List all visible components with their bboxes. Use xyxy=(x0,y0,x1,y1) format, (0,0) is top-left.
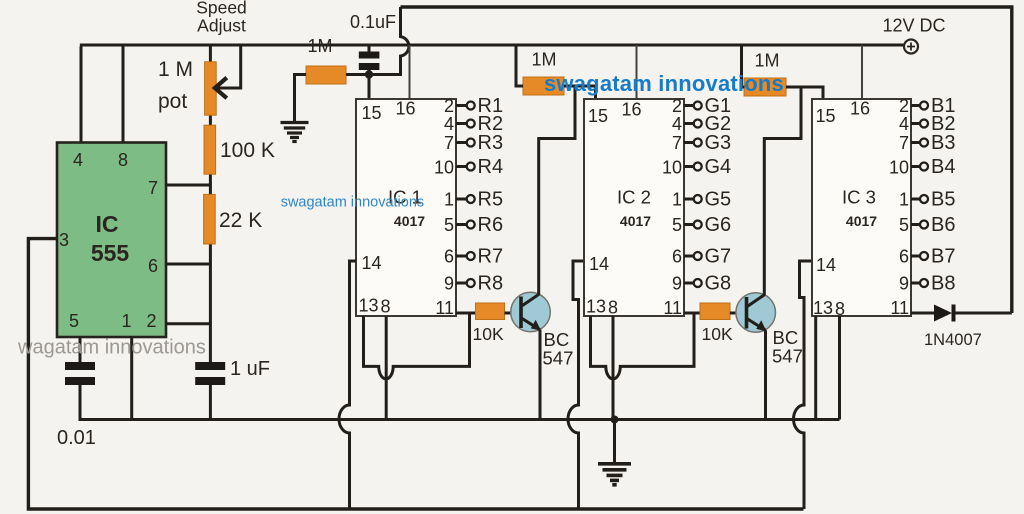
svg-text:swagatam innovations: swagatam innovations xyxy=(281,195,424,211)
IC2 output G6 xyxy=(684,214,731,236)
svg-text:6: 6 xyxy=(148,256,158,276)
svg-text:G5: G5 xyxy=(705,189,732,211)
IC1 output R8 xyxy=(456,273,503,295)
555 pin number labels xyxy=(59,150,158,331)
svg-text:4: 4 xyxy=(899,114,909,134)
diode D1 1N4007 xyxy=(934,305,956,322)
svg-text:11: 11 xyxy=(663,298,682,318)
555 name label xyxy=(91,211,130,266)
IC1 pin16 lead xyxy=(409,45,411,99)
svg-text:G3: G3 xyxy=(705,132,732,154)
svg-text:B8: B8 xyxy=(931,273,955,295)
wire IC1 pin 11 to 10K xyxy=(456,312,476,315)
node junction 0.1uF xyxy=(365,70,373,78)
IC2 output G2 xyxy=(684,113,731,135)
svg-text:5: 5 xyxy=(899,215,909,235)
svg-text:R6: R6 xyxy=(478,214,504,236)
IC1 name labels xyxy=(388,187,425,230)
resistor 1M (second) body xyxy=(523,77,564,95)
resistor 1M (first) body xyxy=(306,66,346,84)
svg-text:IC 3: IC 3 xyxy=(842,187,876,208)
wire 1M-2 right lead to IC2 pin15 xyxy=(564,86,596,99)
svg-text:1M: 1M xyxy=(754,51,779,71)
svg-text:15: 15 xyxy=(816,106,836,126)
svg-text:6: 6 xyxy=(899,247,909,267)
svg-text:16: 16 xyxy=(395,99,415,119)
svg-text:1: 1 xyxy=(121,311,131,331)
svg-text:6: 6 xyxy=(672,247,682,267)
node junction ground bus xyxy=(611,416,619,424)
svg-text:555: 555 xyxy=(91,240,130,266)
wire +12V supply rail xyxy=(80,44,904,47)
wire Q2 base lead xyxy=(730,312,747,315)
potentiometer VR1 1M body xyxy=(205,62,217,115)
svg-text:pot: pot xyxy=(158,90,187,113)
wire diode to right edge xyxy=(956,312,1012,315)
svg-text:wagatam innovations: wagatam innovations xyxy=(17,337,206,359)
svg-text:B4: B4 xyxy=(931,156,955,178)
svg-text:22 K: 22 K xyxy=(219,209,262,232)
label 1 M pot xyxy=(158,58,193,113)
svg-text:4017: 4017 xyxy=(394,213,425,229)
svg-text:14: 14 xyxy=(362,253,382,273)
wire 1M to ground xyxy=(295,75,307,122)
svg-text:1M: 1M xyxy=(307,36,332,56)
svg-text:14: 14 xyxy=(589,254,609,274)
IC3 output B4 xyxy=(911,156,955,178)
svg-text:1: 1 xyxy=(444,190,454,210)
capacitor 0.1uF xyxy=(359,44,380,100)
svg-text:7: 7 xyxy=(444,133,454,153)
IC3 output B6 xyxy=(911,214,955,236)
svg-text:swagatam innovations: swagatam innovations xyxy=(544,71,784,96)
svg-text:9: 9 xyxy=(672,274,682,294)
svg-text:8: 8 xyxy=(118,150,128,170)
svg-text:9: 9 xyxy=(899,274,909,294)
svg-text:G6: G6 xyxy=(705,214,732,236)
ground symbol (near 1M) xyxy=(281,123,309,142)
wire IC1 pin14 clock drop (hop over ground bus) xyxy=(339,261,356,509)
IC3 pin number labels xyxy=(813,96,909,319)
transistor Q2 BC547 xyxy=(736,293,776,333)
IC3 output B2 xyxy=(911,113,955,135)
IC1 output R6 xyxy=(456,214,503,236)
IC3 pin16 lead xyxy=(861,45,863,99)
svg-text:B3: B3 xyxy=(931,132,955,154)
svg-text:13: 13 xyxy=(586,297,606,317)
svg-text:G4: G4 xyxy=(705,156,732,178)
IC3 name labels xyxy=(842,187,877,230)
IC3 output B7 xyxy=(911,246,955,268)
wire 555 pin 3 output and bottom clock bus xyxy=(28,239,803,509)
resistor 100K body xyxy=(204,125,216,174)
IC U2 4017 (IC 1) body xyxy=(356,99,456,316)
wire ground bus xyxy=(79,418,840,421)
svg-text:16: 16 xyxy=(850,99,870,119)
svg-text:14: 14 xyxy=(816,255,836,275)
capacitor 1uF xyxy=(195,362,225,420)
svg-text:11: 11 xyxy=(890,298,909,318)
svg-text:1: 1 xyxy=(672,190,682,210)
wire 555 pin 7 to divider xyxy=(166,184,210,187)
svg-text:2: 2 xyxy=(146,311,156,331)
wire IC3 pin 13 lead to ground bus xyxy=(814,316,817,420)
svg-text:1N4007: 1N4007 xyxy=(924,331,982,349)
IC3 output B5 xyxy=(911,189,955,211)
svg-text:547: 547 xyxy=(543,348,574,369)
svg-text:7: 7 xyxy=(148,178,158,198)
wire IC3 pin 11 to diode xyxy=(911,312,934,315)
svg-text:16: 16 xyxy=(621,100,641,120)
IC1 output R2 xyxy=(456,113,503,135)
svg-text:4017: 4017 xyxy=(620,213,651,229)
IC U4 4017 (IC 3) body xyxy=(812,99,911,316)
svg-text:2: 2 xyxy=(444,96,454,116)
wire Q2 emitter to ground bus xyxy=(764,330,767,419)
svg-text:2: 2 xyxy=(672,96,682,116)
wire 555 pin 6 to divider xyxy=(166,263,210,266)
svg-text:13: 13 xyxy=(359,296,379,316)
svg-text:10K: 10K xyxy=(473,324,504,344)
svg-text:8: 8 xyxy=(381,297,391,317)
svg-text:10K: 10K xyxy=(702,324,733,344)
svg-text:IC: IC xyxy=(96,211,119,237)
wire Q2 collector to 1M node xyxy=(764,87,801,295)
ground symbol (bottom center) xyxy=(598,464,631,485)
IC2 output G3 xyxy=(684,132,731,154)
svg-text:15: 15 xyxy=(588,106,608,126)
wire IC1 pins 13-8-11 to ground xyxy=(364,313,470,420)
IC2 name labels xyxy=(617,187,651,230)
IC2 pin16 lead xyxy=(636,45,638,99)
svg-text:R5: R5 xyxy=(478,189,504,211)
label BC 547 (first) xyxy=(543,329,574,369)
svg-text:15: 15 xyxy=(362,103,382,123)
capacitor 0.01uF xyxy=(65,362,95,420)
IC2 output G5 xyxy=(684,189,731,211)
wire Q1 collector to 1M node xyxy=(539,86,575,295)
svg-text:1 uF: 1 uF xyxy=(230,358,270,380)
potentiometer wiper arrow xyxy=(215,45,241,97)
svg-text:0.1uF: 0.1uF xyxy=(350,12,396,32)
wire IC2 pins 13-8-11 to ground xyxy=(591,313,695,420)
wire 1M-3 left lead to rail xyxy=(742,45,745,87)
svg-text:0.01: 0.01 xyxy=(57,427,96,449)
svg-text:2: 2 xyxy=(899,96,909,116)
IC U3 4017 (IC 2) body xyxy=(584,99,684,316)
svg-text:100 K: 100 K xyxy=(220,139,275,162)
svg-text:13: 13 xyxy=(813,298,833,318)
wire IC3 pin14 clock drop (hop over ground bus) xyxy=(794,261,813,509)
svg-text:10: 10 xyxy=(662,158,682,178)
wire IC3 pin 8 lead to ground bus xyxy=(838,316,841,420)
svg-text:3: 3 xyxy=(59,230,69,250)
wire 1M to 0.1uF node xyxy=(346,73,365,76)
IC1 output R1 xyxy=(456,95,503,117)
wire IC2 pin 11 to 10K xyxy=(684,312,700,315)
555 green body IC U1 xyxy=(57,143,166,338)
svg-text:6: 6 xyxy=(444,247,454,267)
svg-text:1: 1 xyxy=(899,190,909,210)
wire 555 pin 2 to 1uF node xyxy=(166,322,210,325)
svg-text:1 M: 1 M xyxy=(158,58,193,81)
svg-text:4017: 4017 xyxy=(846,213,877,229)
label BC 547 (second) xyxy=(772,327,803,367)
wire top feedback line to diode xyxy=(401,7,1012,313)
resistor 22K body xyxy=(204,194,216,244)
svg-text:4: 4 xyxy=(444,114,454,134)
IC1 output R4 xyxy=(456,156,503,178)
IC1 output R3 xyxy=(456,132,503,154)
IC3 output B3 xyxy=(911,132,955,154)
svg-text:10: 10 xyxy=(889,158,909,178)
svg-text:R3: R3 xyxy=(478,132,504,154)
svg-text:4: 4 xyxy=(672,114,682,134)
wire ground lead xyxy=(613,420,616,463)
wire resistor chain xyxy=(209,45,212,362)
svg-text:Adjust: Adjust xyxy=(197,16,246,36)
IC1 output R5 xyxy=(456,189,503,211)
svg-text:R8: R8 xyxy=(478,273,504,295)
svg-text:10: 10 xyxy=(434,158,454,178)
power terminal 12V DC xyxy=(882,16,945,54)
svg-text:B7: B7 xyxy=(931,246,955,268)
wire IC2 pin14 clock drop (hop over ground bus) xyxy=(568,261,584,509)
IC1 output R7 xyxy=(456,246,503,268)
svg-text:7: 7 xyxy=(899,133,909,153)
IC1 pin number labels xyxy=(359,96,455,318)
svg-text:1M: 1M xyxy=(531,50,556,70)
wire 555 pin 5 lead xyxy=(79,337,82,362)
svg-text:8: 8 xyxy=(608,298,618,318)
resistor 10K (second) body xyxy=(700,303,730,320)
IC3 output B1 xyxy=(911,95,955,117)
svg-text:R7: R7 xyxy=(478,246,504,268)
wire 0.1uF node to top line (hop over rail) xyxy=(369,7,409,75)
svg-text:B5: B5 xyxy=(931,189,955,211)
svg-text:11: 11 xyxy=(435,298,454,318)
svg-text:B6: B6 xyxy=(931,214,955,236)
svg-text:9: 9 xyxy=(444,274,454,294)
wire 1M-2 left lead to rail xyxy=(516,45,523,86)
svg-text:R4: R4 xyxy=(478,156,504,178)
wire 555 pin 1 lead xyxy=(130,337,133,420)
IC2 output G1 xyxy=(684,95,731,117)
IC2 output G4 xyxy=(684,156,731,178)
svg-text:5: 5 xyxy=(69,311,79,331)
wire 1M-3 right lead to IC3 pin15 xyxy=(786,87,823,99)
svg-text:547: 547 xyxy=(772,346,803,367)
svg-text:IC 2: IC 2 xyxy=(617,187,651,208)
IC2 output G8 xyxy=(684,273,731,295)
svg-text:7: 7 xyxy=(672,133,682,153)
label Speed Adjust xyxy=(196,0,247,36)
wire Q1 base lead xyxy=(505,312,522,315)
wire Q1 emitter to ground bus xyxy=(539,330,542,420)
IC2 pin number labels xyxy=(586,96,682,318)
svg-text:5: 5 xyxy=(444,215,454,235)
wire 555 pin 8 lead xyxy=(122,45,125,143)
IC2 output G7 xyxy=(684,246,731,268)
svg-text:12V DC: 12V DC xyxy=(882,16,945,36)
wire 555 pin 4 lead xyxy=(80,47,83,143)
IC3 output B8 xyxy=(911,273,955,295)
resistor 10K (first) body xyxy=(476,303,505,320)
transistor Q1 BC547 xyxy=(511,292,551,332)
svg-text:4: 4 xyxy=(73,150,83,170)
svg-text:G8: G8 xyxy=(705,273,732,295)
svg-text:G7: G7 xyxy=(705,246,732,268)
resistor 1M (third) body xyxy=(744,78,786,96)
svg-text:5: 5 xyxy=(672,215,682,235)
